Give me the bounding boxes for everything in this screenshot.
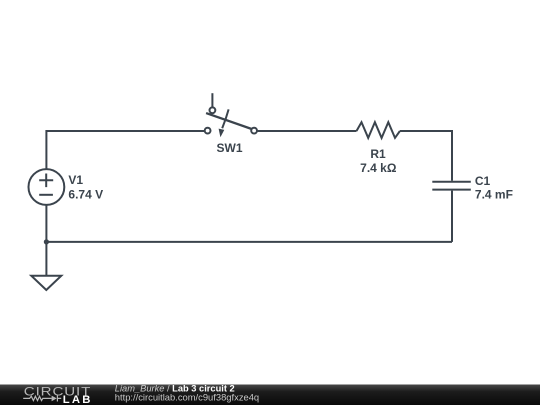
- svg-text:http://circuitlab.com/c9uf38gf: http://circuitlab.com/c9uf38gfxze4q: [115, 392, 259, 403]
- svg-text:7.4 mF: 7.4 mF: [475, 188, 513, 202]
- capacitor C1: [432, 182, 471, 190]
- node A junction: [44, 239, 49, 244]
- svg-text:LAB: LAB: [63, 394, 93, 405]
- svg-text:C1: C1: [475, 174, 491, 188]
- ground: [31, 276, 61, 290]
- wire: [46, 241, 452, 243]
- wire: [46, 131, 204, 169]
- wire: [257, 130, 357, 132]
- wire: [400, 131, 452, 181]
- svg-text:6.74 V: 6.74 V: [68, 188, 103, 202]
- wire: [45, 205, 47, 242]
- resistor R1: [357, 122, 400, 138]
- svg-text:7.4 kΩ: 7.4 kΩ: [360, 161, 397, 175]
- wire: [45, 242, 47, 275]
- svg-text:SW1: SW1: [216, 141, 242, 155]
- footer bar: [0, 385, 540, 405]
- voltage source V1: [29, 169, 65, 205]
- svg-text:R1: R1: [370, 147, 386, 161]
- wire: [451, 191, 453, 242]
- CircuitLab logo resistor-diode symbol: [23, 395, 61, 401]
- switch SW1: [205, 93, 257, 137]
- svg-text:V1: V1: [68, 173, 83, 187]
